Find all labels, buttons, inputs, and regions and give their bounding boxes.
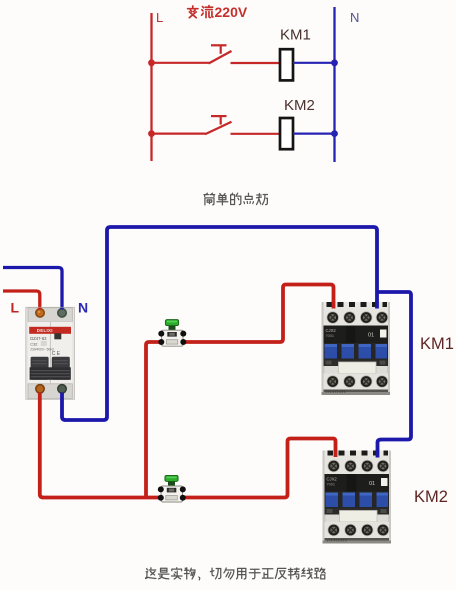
- label AC 220V value: [188, 4, 248, 20]
- wire blue entry overlay at breaker N top terminal: [60, 308, 63, 310]
- wire blue exit overlay at breaker N bottom terminal: [60, 393, 64, 400]
- pushbutton SB4 (green, photo-style): [158, 475, 186, 502]
- label KM2 (wiring view): [414, 488, 448, 506]
- wire red breaker output down to bottom run: [40, 390, 161, 498]
- svg-text:220V: 220V: [215, 4, 248, 20]
- wire blue entry overlay at KM2 A2: [376, 450, 380, 458]
- pushbutton SB3 (green, photo-style): [158, 320, 186, 347]
- node junction dot row2 L: [148, 130, 155, 137]
- wire row2 right contact: [231, 133, 280, 135]
- wire red exit overlay at breaker L bottom terminal: [38, 393, 42, 400]
- svg-text:KM2: KM2: [414, 488, 448, 506]
- coil KM1 (schematic rectangle): [280, 49, 293, 80]
- node junction dot row2 N: [331, 130, 338, 137]
- wire red L feed to breaker: [3, 291, 40, 313]
- wire row2 coil to N: [293, 133, 335, 135]
- label caption top (jian dan de dian dong): [204, 193, 267, 205]
- label L (top schematic): [156, 10, 163, 25]
- wire row1 coil to N: [293, 62, 335, 64]
- wire blue N feed to breaker: [3, 268, 62, 314]
- coil KM2 (schematic rectangle): [280, 118, 293, 149]
- label L (breaker input): [11, 300, 20, 316]
- wire row1 right contact: [231, 62, 280, 64]
- svg-text:L: L: [11, 300, 20, 316]
- wire blue branch KM1 to KM2 coil: [377, 292, 411, 457]
- svg-text:L: L: [156, 10, 163, 25]
- label caption bottom: [146, 568, 326, 580]
- svg-text:KM1: KM1: [280, 27, 311, 44]
- wire blue entry overlay at KM1 A2: [375, 301, 379, 309]
- svg-text:N: N: [350, 10, 359, 25]
- pushbutton SB2 symbol (momentary NO): [205, 116, 232, 134]
- wire red SB3 to KM1 coil: [185, 285, 334, 343]
- svg-text:KM2: KM2: [284, 97, 315, 114]
- wire red entry overlay at breaker L top terminal: [38, 308, 41, 310]
- breaker QF1 (DZ47-63 2P photo-style): [26, 307, 75, 399]
- wire L line (schematic live bus): [150, 13, 152, 161]
- wire red entry overlay at KM1 A1: [332, 301, 336, 309]
- svg-text:N: N: [78, 300, 88, 316]
- label KM1 (schematic): [280, 27, 311, 44]
- wire blue breaker output loop to KM1 top: [62, 227, 377, 420]
- contactor KM2 (photo-style): [323, 451, 392, 544]
- wire red SB3 branch vertical: [146, 342, 161, 498]
- pushbutton SB1 symbol (momentary NO): [209, 45, 232, 63]
- label KM2 (schematic): [284, 97, 315, 114]
- label N (breaker input): [78, 300, 88, 316]
- node junction dot row1 N: [331, 59, 338, 66]
- label KM1 (wiring view): [420, 335, 454, 353]
- wire row2 left contact: [152, 133, 206, 135]
- contactor KM1 (photo-style): [322, 302, 391, 395]
- wire red bottom run from SB4 to KM2 coil: [184, 439, 336, 498]
- wire red entry overlay at KM2 A1: [334, 450, 338, 458]
- wire row1 left contact: [152, 62, 210, 64]
- label N (top schematic): [350, 10, 359, 25]
- node junction dot row1 L: [148, 59, 155, 66]
- wire N line (schematic neutral bus): [333, 7, 335, 162]
- svg-text:KM1: KM1: [420, 335, 454, 353]
